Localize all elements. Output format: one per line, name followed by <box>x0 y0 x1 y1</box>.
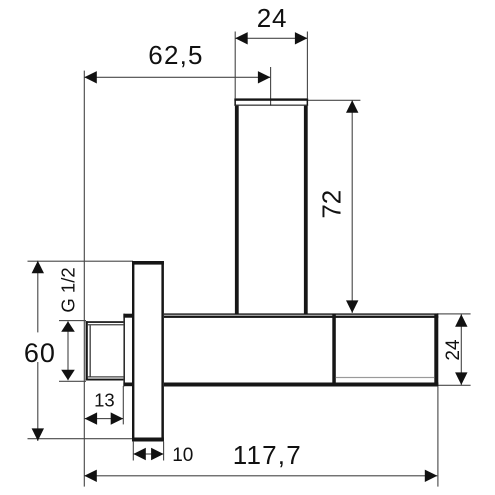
svg-text:10: 10 <box>172 445 193 466</box>
svg-text:24: 24 <box>257 3 288 33</box>
svg-text:62,5: 62,5 <box>148 40 203 70</box>
svg-text:117,7: 117,7 <box>233 440 302 470</box>
svg-text:72: 72 <box>317 190 347 219</box>
svg-text:G 1/2: G 1/2 <box>57 267 78 312</box>
svg-text:24: 24 <box>443 339 464 361</box>
svg-text:13: 13 <box>94 389 115 410</box>
svg-text:60: 60 <box>24 338 56 368</box>
